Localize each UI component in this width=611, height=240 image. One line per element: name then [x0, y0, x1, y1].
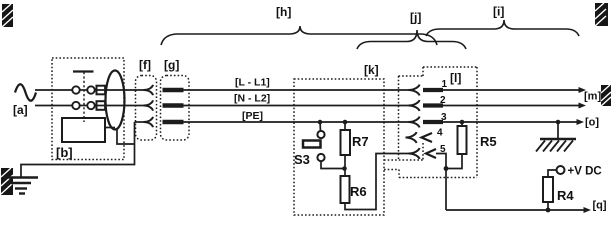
junction R5 tap	[460, 120, 465, 125]
svg-text:5: 5	[440, 144, 446, 155]
wire pin3 to R5	[461, 122, 463, 126]
earth chassis bar	[540, 138, 576, 140]
svg-text:2: 2	[440, 95, 446, 106]
transformer ellipse	[106, 71, 125, 130]
connector pin bar 1	[423, 88, 443, 92]
wall hatch right-middle	[601, 85, 611, 106]
earth chassis hatches	[536, 141, 573, 152]
wire between contacts N	[80, 105, 87, 107]
wire N through ellipse	[95, 105, 144, 107]
fuse square N	[97, 101, 106, 110]
wire bottom to arrow [q]	[446, 209, 584, 211]
earth ground left	[3, 178, 38, 194]
svg-text:[m]: [m]	[584, 91, 601, 103]
wire L1 left segment	[35, 89, 72, 91]
resistor R4	[543, 177, 553, 202]
switch link dashed	[83, 72, 85, 122]
wall hatch top-left	[2, 4, 13, 27]
wire PE to S3	[319, 122, 322, 131]
junction R4	[546, 208, 551, 213]
wire ellipse bottom down	[117, 129, 135, 144]
plug fork contact N	[144, 100, 154, 110]
svg-text:R5: R5	[480, 134, 497, 149]
socket pin bar N	[163, 103, 184, 107]
connector fork contact 1	[409, 85, 420, 96]
wire pin5 down	[436, 154, 446, 211]
AC source sine	[15, 84, 36, 101]
resistor R6	[341, 176, 350, 203]
svg-text:[o]: [o]	[585, 117, 599, 129]
wire R7 to R6	[344, 155, 346, 176]
connector pin bar 3	[423, 120, 443, 124]
switch S3 top contact	[317, 131, 324, 138]
wire row1 to arrow	[443, 89, 579, 91]
wire PE stub to plug	[135, 121, 145, 123]
switch S3 bottom contact	[317, 154, 324, 161]
arrow [q]	[584, 207, 592, 213]
connector fork contact 5	[409, 148, 420, 159]
socket box [g]	[161, 76, 190, 141]
wire N mains cable	[182, 105, 409, 107]
junction pin5-R5	[444, 166, 449, 171]
PE drop wire	[21, 122, 135, 177]
svg-text:+V DC: +V DC	[568, 166, 602, 178]
arrow [o] row3	[577, 119, 585, 125]
arrow row2	[579, 103, 587, 109]
svg-text:[i]: [i]	[493, 5, 504, 19]
+V DC terminal circle	[557, 166, 565, 174]
junction earth tap	[556, 120, 561, 125]
svg-text:R7: R7	[352, 134, 369, 149]
wire row2 to arrow	[443, 105, 579, 107]
wire between contacts L1	[80, 89, 87, 91]
wire L1 mains cable	[182, 89, 409, 91]
svg-text:[h]: [h]	[276, 5, 291, 19]
connector male pin 5	[426, 149, 436, 158]
junction S3-R7	[342, 166, 347, 171]
brace [h]	[161, 26, 437, 45]
svg-text:R6: R6	[350, 184, 367, 199]
svg-text:[PE]: [PE]	[242, 110, 263, 122]
svg-text:[a]: [a]	[13, 103, 28, 117]
plug box [f]	[136, 76, 157, 141]
svg-text:[b]: [b]	[56, 145, 73, 160]
svg-text:S3: S3	[294, 152, 310, 167]
wire rect to ellipse bottom	[105, 127, 115, 129]
brace [j]	[357, 30, 466, 49]
socket pin bar L1	[163, 88, 184, 92]
wire PE mains cable	[182, 121, 409, 123]
connector [l] outline	[384, 67, 477, 178]
connector male pin 4	[422, 133, 433, 142]
connector fork contact 2	[409, 100, 420, 111]
switch contact circle L1-1	[72, 86, 79, 93]
switch S3 actuator	[303, 141, 321, 148]
svg-text:[g]: [g]	[164, 58, 179, 72]
connector fork contact 4	[406, 132, 417, 143]
socket pin bar PE	[163, 120, 184, 124]
svg-text:R4: R4	[557, 188, 574, 203]
wire row3 to arrow	[443, 121, 577, 123]
svg-text:[k]: [k]	[364, 63, 379, 77]
wire PE to R7	[344, 122, 346, 130]
svg-text:[l]: [l]	[450, 71, 461, 85]
svg-text:1: 1	[442, 79, 448, 90]
box [k]	[294, 79, 384, 215]
switch contact circle L1-2	[87, 86, 94, 93]
junction S3 tap	[318, 120, 323, 125]
svg-text:[L - L1]: [L - L1]	[235, 77, 270, 89]
wire L1 through ellipse	[95, 89, 144, 91]
svg-text:3: 3	[441, 112, 447, 123]
wall hatch top-right	[595, 3, 608, 26]
plug fork contact PE	[144, 117, 154, 127]
svg-text:[j]: [j]	[410, 11, 421, 25]
wire R4 bottom	[547, 202, 549, 210]
wire to earth	[557, 122, 559, 139]
plug fork contact L1	[144, 85, 154, 95]
connector fork contact 3	[409, 117, 420, 128]
switch actuator bar	[73, 70, 94, 72]
fuse square L1	[97, 86, 106, 95]
switch contact circle N-2	[87, 102, 94, 109]
svg-text:[f]: [f]	[139, 58, 151, 72]
arrow [m] row1	[579, 87, 587, 93]
svg-text:[q]: [q]	[593, 200, 607, 212]
switch contact circle N-1	[72, 102, 79, 109]
junction R7 tap	[343, 120, 348, 125]
wire R5 bottom	[446, 154, 462, 169]
enclosure box [b]	[52, 58, 124, 160]
wire N left segment	[35, 105, 72, 107]
svg-text:4: 4	[437, 128, 443, 139]
connector pin bar 2	[423, 103, 443, 107]
wire +V DC to R4	[548, 170, 557, 177]
brace [i]	[426, 20, 579, 36]
wire R6 loop to pin5	[345, 154, 409, 210]
resistor R7	[341, 130, 351, 155]
wire S3 to junction	[321, 161, 345, 169]
wall hatch bottom-left	[1, 168, 13, 195]
resistor R5	[458, 126, 467, 154]
svg-text:[N - L2]: [N - L2]	[234, 93, 270, 105]
equipment rectangle in [b]	[62, 118, 105, 142]
